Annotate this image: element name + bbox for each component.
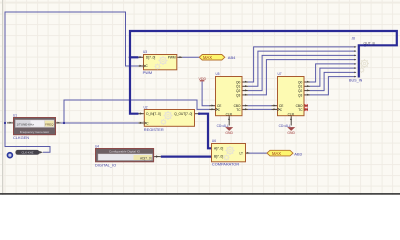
svg-text:Q_OUT[7..0]: Q_OUT[7..0] bbox=[174, 112, 192, 116]
svg-text:U4: U4 bbox=[95, 144, 99, 148]
svg-text:AB3: AB3 bbox=[294, 151, 302, 156]
svg-text:TC: TC bbox=[236, 108, 241, 112]
svg-text:DIGITAL_IO: DIGITAL_IO bbox=[95, 163, 116, 168]
svg-text:BUS_IN: BUS_IN bbox=[349, 78, 363, 82]
svg-text:U2: U2 bbox=[144, 105, 148, 109]
svg-text:PWM: PWM bbox=[168, 56, 176, 60]
svg-text:U5: U5 bbox=[216, 72, 220, 76]
svg-text:B[7..0]: B[7..0] bbox=[214, 155, 223, 159]
svg-text:FREQ: FREQ bbox=[45, 123, 54, 127]
svg-text:MAX: MAX bbox=[272, 151, 281, 156]
svg-text:GND: GND bbox=[225, 131, 233, 135]
svg-text:D[7..0]: D[7..0] bbox=[146, 56, 156, 60]
svg-text:Q3: Q3 bbox=[236, 93, 240, 97]
svg-text:PWM: PWM bbox=[143, 70, 153, 75]
svg-text:GND: GND bbox=[287, 131, 295, 135]
svg-text:AD[7..0]: AD[7..0] bbox=[140, 156, 152, 160]
svg-text:U3: U3 bbox=[143, 50, 147, 54]
svg-text:U1: U1 bbox=[13, 113, 17, 117]
svg-text:D_IN[7..0]: D_IN[7..0] bbox=[146, 112, 160, 116]
svg-text:Q3: Q3 bbox=[298, 93, 302, 97]
svg-text:CD=ALL: CD=ALL bbox=[279, 124, 291, 128]
svg-text:Configurable Digital IO: Configurable Digital IO bbox=[109, 149, 141, 153]
svg-text:CLR: CLR bbox=[288, 112, 295, 116]
svg-text:OUT_B: OUT_B bbox=[364, 41, 376, 45]
svg-text:A[7..0]: A[7..0] bbox=[214, 147, 223, 151]
svg-text:MAX: MAX bbox=[203, 55, 212, 60]
svg-text:CD=ALL: CD=ALL bbox=[217, 124, 229, 128]
svg-text:AB4: AB4 bbox=[228, 55, 236, 60]
svg-text:COMPARATOR: COMPARATOR bbox=[212, 162, 239, 167]
svg-text:REGISTER: REGISTER bbox=[144, 127, 164, 132]
svg-text:U7: U7 bbox=[278, 72, 282, 76]
svg-text:CLR: CLR bbox=[226, 112, 233, 116]
svg-text:1/TUNE-KHz: 1/TUNE-KHz bbox=[17, 123, 35, 127]
svg-text:VDD: VDD bbox=[199, 77, 207, 81]
svg-text:Frequency Generator: Frequency Generator bbox=[20, 130, 49, 134]
svg-text:U6: U6 bbox=[212, 139, 216, 143]
svg-text:J8: J8 bbox=[352, 37, 356, 41]
svg-text:TC: TC bbox=[298, 108, 303, 112]
svg-text:CLKGEN: CLKGEN bbox=[13, 135, 29, 140]
svg-text:LT: LT bbox=[240, 151, 244, 155]
svg-text:CLK-KHZ: CLK-KHZ bbox=[22, 151, 34, 155]
